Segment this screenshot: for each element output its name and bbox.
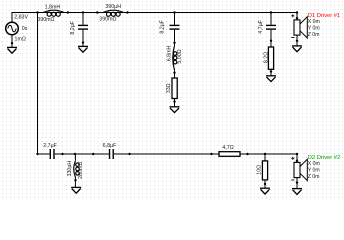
- inductor L3 6,8mH: [173, 46, 177, 78]
- resistor R4 10ohm: [264, 154, 266, 161]
- terminal dot L3/R1: [173, 72, 175, 74]
- ground (10ohm): [260, 188, 270, 194]
- svg-text:8,2Ω: 8,2Ω: [264, 52, 270, 63]
- ground (C1): [78, 46, 88, 52]
- capacitor C2 8,2uF: [170, 13, 180, 46]
- voltage source V1: [6, 22, 19, 35]
- svg-text:390mΩ: 390mΩ: [37, 17, 54, 23]
- svg-text:6,8mH: 6,8mH: [167, 46, 173, 62]
- svg-text:1mΩ: 1mΩ: [15, 36, 26, 42]
- wire source to ground: [11, 35, 13, 47]
- speaker D2: [296, 153, 298, 155]
- svg-text:X 0m: X 0m: [308, 19, 320, 25]
- terminal dot C2 bottom: [173, 42, 175, 44]
- terminal dot L4 bottom: [74, 179, 76, 181]
- svg-text:2,83V: 2,83V: [14, 14, 28, 20]
- ground (source): [7, 47, 17, 53]
- node A (left drop junction): [36, 11, 38, 13]
- terminal dot C1 bottom: [82, 41, 84, 43]
- inductor L4 330uH: [74, 154, 80, 187]
- svg-text:6,8µF: 6,8µF: [103, 143, 117, 149]
- ground (D1): [292, 46, 302, 52]
- terminal dot L2 right: [126, 11, 128, 13]
- svg-text:X 0m: X 0m: [308, 161, 320, 167]
- wire R2 to ground: [270, 69, 272, 75]
- ground (330uH): [71, 187, 81, 193]
- svg-text:8,2µF: 8,2µF: [160, 19, 166, 33]
- svg-text:Z 0m: Z 0m: [308, 174, 320, 180]
- svg-text:390µH: 390µH: [105, 4, 121, 10]
- wire R1 to ground: [174, 99, 176, 107]
- svg-text:Y 0m: Y 0m: [308, 168, 320, 174]
- speaker D1: [296, 11, 298, 13]
- wire top rail: [12, 13, 297, 23]
- resistor R2 8,2ohm: [268, 47, 273, 69]
- terminal dot R3 right: [246, 153, 248, 155]
- svg-text:280mΩ: 280mΩ: [78, 162, 84, 179]
- terminal dot L1 right: [67, 11, 69, 13]
- wire R4 to ground: [264, 180, 266, 188]
- terminal dots C5: [92, 153, 94, 155]
- svg-text:10Ω: 10Ω: [257, 165, 263, 175]
- wire bottom rail to D2: [240, 154, 297, 162]
- svg-text:4,7Ω: 4,7Ω: [222, 145, 233, 151]
- node C (branch 2 tap): [173, 11, 175, 13]
- wire left drop: [37, 13, 39, 155]
- junction dot V1 to ground: [11, 42, 13, 44]
- inductor L1 1,8mH: [43, 10, 64, 16]
- svg-text:2,7µF: 2,7µF: [43, 143, 57, 149]
- node D (branch 3 tap): [270, 11, 272, 13]
- node F (10ohm tap): [264, 153, 266, 155]
- wire bottom rail mid: [55, 153, 109, 155]
- node B (cap branch 1 tap): [82, 11, 84, 13]
- resistor R3 4,7ohm: [210, 153, 212, 155]
- terminal dots C4: [36, 153, 38, 155]
- capacitor C1 8,2uF: [78, 13, 88, 47]
- capacitor C5 6,8uF: [110, 149, 114, 159]
- capacitor C4 2,7uF: [50, 149, 54, 159]
- ground (D2): [292, 189, 302, 195]
- svg-text:1,8mH: 1,8mH: [45, 4, 61, 10]
- svg-text:390mΩ: 390mΩ: [99, 17, 116, 23]
- ground (branch 2): [170, 107, 180, 113]
- svg-text:5,00Ω: 5,00Ω: [177, 49, 183, 63]
- capacitor C3 4,7uF: [266, 13, 276, 48]
- svg-text:Z 0m: Z 0m: [308, 32, 320, 38]
- svg-text:8,2µF: 8,2µF: [70, 20, 76, 34]
- node E (330uH tap): [74, 153, 76, 155]
- svg-text:Y 0m: Y 0m: [308, 26, 320, 32]
- svg-text:330µH: 330µH: [67, 161, 73, 177]
- wire bottom rail left: [38, 153, 50, 155]
- svg-text:0s: 0s: [22, 26, 28, 32]
- inductor L2 390uH: [96, 11, 98, 13]
- ground (branch 3): [266, 76, 276, 82]
- svg-text:33Ω: 33Ω: [166, 83, 172, 93]
- terminal dot C3/R2: [270, 40, 272, 42]
- svg-text:4,7µF: 4,7µF: [258, 19, 264, 33]
- resistor R1 33ohm: [172, 78, 177, 99]
- wire bottom rail right: [114, 153, 220, 155]
